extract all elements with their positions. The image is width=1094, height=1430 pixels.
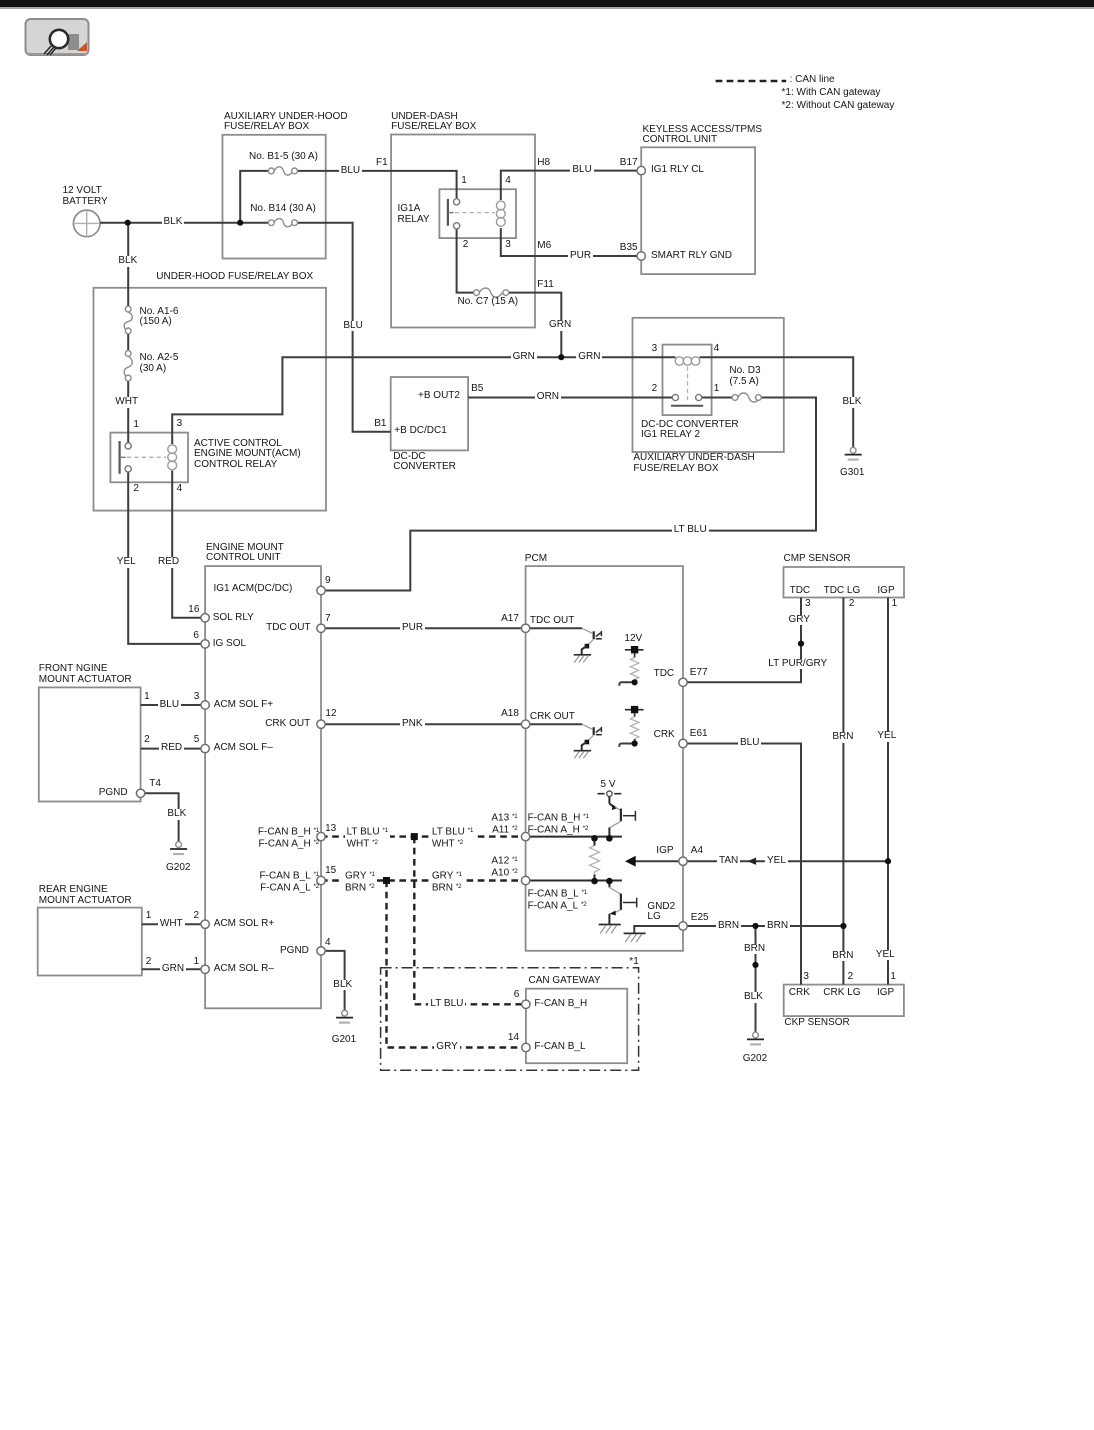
wire relay pin 2 down YEL to IG SOL (128, 469, 205, 644)
box KEYLESS ACCESS/TPMS CONTROL UNIT (641, 147, 755, 274)
pin B35 keyless (637, 252, 645, 260)
wire fuse B1-5 BLU F1 to IG1A pin 1 (295, 171, 457, 199)
wire fuse D3 LT BLU to EMCU pin 9 (321, 398, 816, 591)
wire IG1A pin 3 M6 PUR to B35 (501, 228, 641, 256)
pin 9 IG1 ACM (317, 586, 325, 594)
arrow on TAN YEL wire (748, 858, 757, 865)
box ACM CONTROL RELAY (110, 433, 188, 483)
pin 12 CRK OUT (317, 720, 325, 728)
wire relay2 pin 1 to fuse D3 (712, 397, 735, 399)
junction CAN L resistor (591, 878, 598, 885)
relay2 DC-DC IG1 RELAY 2 internals (671, 357, 703, 406)
wire DC-DC B5 ORN to relay2 pin 2 (468, 397, 672, 399)
pin 1 ACM SOL R- (201, 965, 209, 973)
CAN terminating resistor (590, 838, 600, 881)
pin 2 ACM SOL R+ (201, 920, 209, 928)
junction dashed GRY node (383, 877, 390, 884)
wire relay pin 3 GRN to relay2 pin 3 (172, 357, 675, 444)
pin E25 PCM (679, 922, 687, 930)
box PCM (526, 566, 683, 951)
junction fuse B14 feed (237, 220, 243, 226)
junction YEL/IGP node (885, 858, 891, 864)
GRAPHICS (38, 135, 904, 1064)
box DC-DC CONVERTER IG1 RELAY 2 (663, 345, 712, 416)
wire CRK OUT PNK to A18 (321, 723, 526, 725)
wire relay pin 4 RED to SOL RLY (172, 471, 205, 618)
pin 5 ACM SOL F- (201, 744, 209, 752)
wire between fuses A1-6 and A2-5 (127, 331, 129, 354)
pin 7 TDC OUT (317, 624, 325, 632)
pin E77 PCM (679, 678, 687, 686)
pin 13 F-CAN H (317, 832, 325, 840)
pin A12/A10 PCM (521, 876, 529, 884)
wire CMP TDC LG BRN to CKP 2 (842, 598, 844, 985)
box AUXILIARY UNDER-DASH FUSE/RELAY BOX (633, 318, 784, 452)
transistor at A17 TDC OUT (526, 628, 602, 662)
transistor CAN upper (609, 804, 635, 839)
5V supply symbol (598, 791, 622, 804)
wire CMP TDC GRY LT PUR/GRY to E77 (683, 598, 801, 683)
box FRONT ENGINE MOUNT ACTUATOR (39, 687, 141, 801)
wire dashed F-CAN H pin13 to A13/A11 (321, 835, 526, 837)
wire dashed LT BLU to CAN gateway 6 (414, 837, 526, 1005)
ground G202 right (747, 1032, 764, 1044)
wire CMP IGP YEL to CKP 1 (887, 598, 889, 985)
wire TDC OUT PUR to A17 (321, 627, 526, 629)
wire relay2 pin 4 BLK to G301 (700, 357, 854, 447)
wire E25 BRN (683, 925, 843, 927)
junction battery BLK (125, 220, 131, 226)
relay IG1A internals (448, 199, 505, 229)
junction BRN/E25 node (752, 923, 758, 929)
wire rear actuator 1 WHT to ACM SOL R+ (142, 923, 205, 925)
wire junction up to fuse B1-5 (240, 171, 271, 223)
junction CAN L transistor (606, 878, 613, 885)
CAN wires inside PCM (526, 837, 622, 881)
wire relay2 contact to pin 1 (702, 397, 712, 399)
fuse No. D3 (7.5 A) (732, 393, 761, 402)
pin 16 SOL RLY (201, 614, 209, 622)
wire EMCU pin 4 PGND BLK to G201 (321, 951, 345, 1010)
wire fuse B14 BLU down to DC-DC B1 (295, 223, 391, 432)
pin 15 F-CAN L (317, 876, 325, 884)
pin T4 PGND actuator (136, 789, 144, 797)
magnifier toolbar icon (26, 19, 89, 55)
junction BRN/BLK splice (752, 962, 758, 968)
pin A18 PCM (521, 720, 529, 728)
pin A4 PCM (679, 857, 687, 865)
12V pull-up resistor CRK (619, 706, 643, 747)
pin 6 CAN gateway (522, 1000, 530, 1008)
wire E61 BLU to CKP 3 (683, 744, 801, 985)
box UNDER-HOOD FUSE/RELAY BOX (94, 288, 327, 511)
junction dashed LT BLU node (411, 833, 418, 840)
pin E61 PCM (679, 739, 687, 747)
fuse No. A1-6 (150 A) vertical (124, 306, 132, 334)
wire T4 PGND BLK to G202 (145, 793, 179, 841)
TEXTS (790, 75, 835, 86)
fuse No. C7 (15 A) (474, 288, 509, 297)
box UNDER-DASH FUSE/RELAY BOX (391, 135, 535, 328)
IGP arrow into PCM (625, 856, 683, 867)
wire front actuator 2 RED to ACM SOL F- (141, 748, 206, 750)
junction CAN H resistor (591, 835, 598, 842)
GND2 LG ground at E25 (624, 926, 683, 942)
wire dashed F-CAN L pin15 to A12/A10 (321, 879, 526, 881)
pin B17 keyless (637, 166, 645, 174)
fuse No. B14 (30 A) (268, 219, 297, 227)
junction GRY/LT PUR splice (798, 641, 804, 647)
battery 12V (73, 210, 100, 237)
box CKP SENSOR (784, 985, 904, 1017)
wire dashed GRY to CAN gateway 14 (387, 881, 526, 1048)
wire BRN BLK to G202 (755, 926, 757, 1032)
wire A4 TAN YEL (683, 860, 888, 862)
wire rear actuator 2 GRN to ACM SOL R- (142, 968, 205, 970)
box IG1A RELAY (439, 189, 516, 238)
box REAR ENGINE MOUNT ACTUATOR (38, 908, 142, 976)
junction CRK pull-up (632, 740, 638, 746)
pin 14 CAN gateway (522, 1043, 530, 1051)
fuse No. B1-5 (30 A) (268, 167, 297, 175)
junction BRN/CRK LG node (840, 923, 846, 929)
junction TDC pull-up (632, 679, 638, 685)
ground G301 (845, 447, 862, 459)
wire IG1A pin 4 H8 BLU to B17 (501, 171, 641, 200)
wire front actuator 1 BLU to ACM SOL F+ (141, 704, 206, 706)
pin A13/A11 PCM (521, 832, 529, 840)
legend CAN line sample (716, 80, 787, 83)
pin A17 PCM (521, 624, 529, 632)
junction CAN H transistor (606, 835, 613, 842)
12V pull-up resistor TDC (619, 646, 643, 686)
wire junction to fuse B14 (240, 222, 271, 224)
box DC-DC CONVERTER (391, 377, 468, 450)
pin 3 ACM SOL F+ (201, 701, 209, 709)
wire WHT fuse A2-5 to relay pin 1 (127, 378, 129, 446)
top black bar (0, 0, 1094, 7)
wire IG1A pin 2 to fuse C7 (457, 229, 477, 293)
box CMP SENSOR (784, 567, 905, 598)
pin 4 PGND (317, 947, 325, 955)
relay ACM internals (120, 441, 177, 474)
wire fuse C7 F11 GRN down (506, 293, 562, 358)
enclosure *1 dash-dot (381, 968, 639, 1071)
ground G201 (336, 1010, 353, 1022)
wire BLK down from junction (127, 223, 129, 309)
pin 6 IG SOL (201, 640, 209, 648)
junction GRN node (558, 354, 564, 360)
wire battery BLK to fuse box (100, 222, 240, 224)
ground G202 front actuator (170, 842, 187, 854)
fuse No. A2-5 (30 A) vertical (124, 351, 132, 382)
box ENGINE MOUNT CONTROL UNIT (205, 566, 321, 1008)
transistor CAN lower (599, 881, 637, 934)
box CAN GATEWAY (526, 989, 627, 1063)
box AUXILIARY UNDER-HOOD FUSE/RELAY BOX (223, 135, 326, 259)
transistor at A18 CRK OUT (526, 724, 602, 758)
